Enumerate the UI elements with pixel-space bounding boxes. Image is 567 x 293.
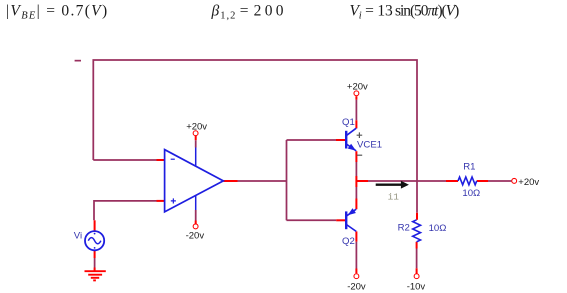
svg-text:Vi: Vi (74, 230, 82, 241)
svg-text:R2: R2 (398, 222, 410, 233)
svg-text:R1: R1 (463, 161, 475, 172)
svg-text:-20v: -20v (347, 281, 366, 292)
svg-text:10Ω: 10Ω (429, 223, 447, 234)
svg-text:-10v: -10v (407, 281, 426, 292)
svg-text:10Ω: 10Ω (462, 188, 480, 199)
svg-text:VCE1: VCE1 (357, 139, 382, 150)
svg-text:Q1: Q1 (342, 117, 355, 128)
svg-text:Vi = 13sin(50πt)(V): Vi = 13sin(50πt)(V) (350, 2, 460, 21)
svg-text:-20v: -20v (186, 231, 205, 242)
svg-text:Q2: Q2 (342, 236, 355, 247)
svg-text:+20v: +20v (347, 82, 368, 93)
svg-text:+20v: +20v (186, 121, 207, 132)
svg-text:i1: i1 (388, 191, 400, 202)
svg-text:+20v: +20v (518, 177, 539, 188)
